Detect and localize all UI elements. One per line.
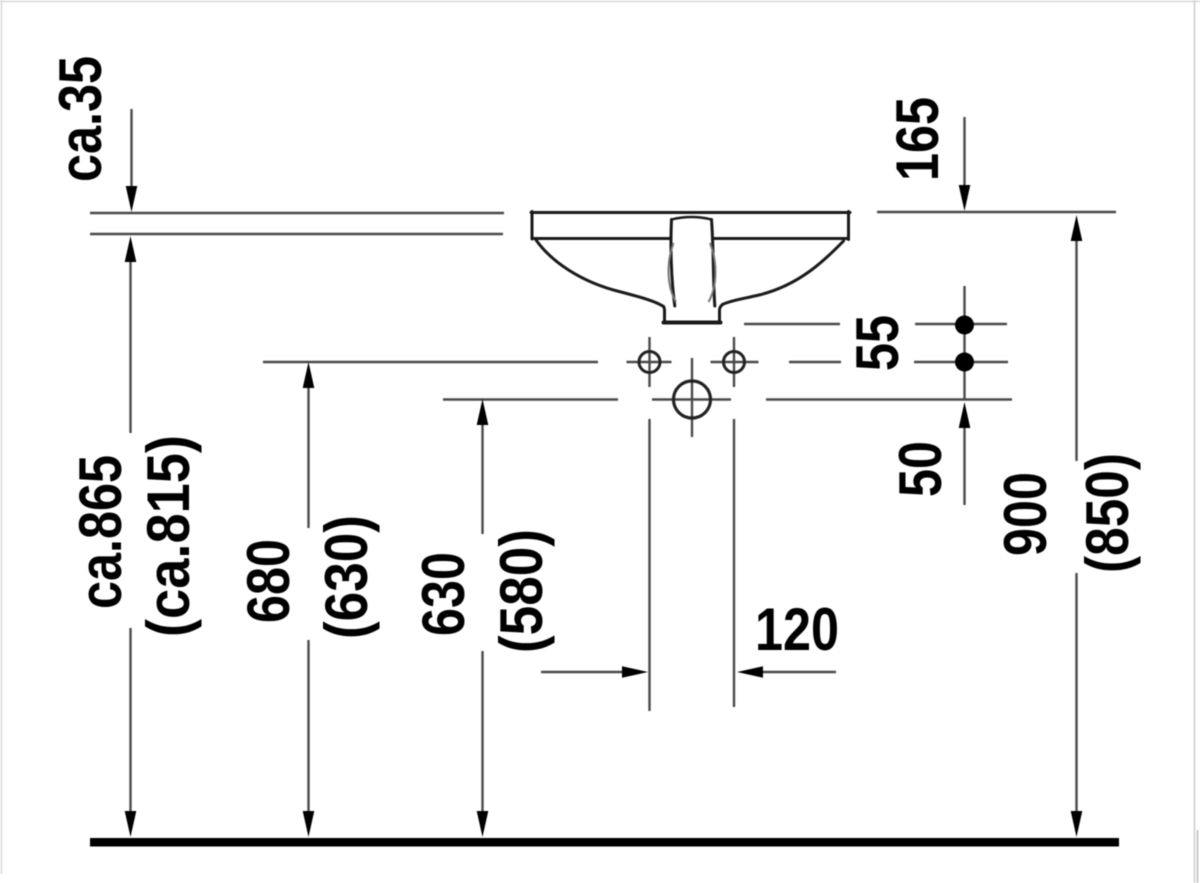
svg-text:(850): (850) xyxy=(1074,453,1141,573)
overflow column top arc xyxy=(672,217,712,220)
arrow 165 down xyxy=(959,185,971,211)
svg-text:ca.865: ca.865 xyxy=(67,455,134,609)
arrow ca.865 up xyxy=(125,236,137,262)
svg-text:50: 50 xyxy=(887,441,954,497)
basin rim left edge xyxy=(531,212,534,240)
faint page border top xyxy=(0,1,1200,3)
wire left faucet hole centerline vertical xyxy=(648,337,650,711)
svg-text:(580): (580) xyxy=(488,529,555,653)
faucet hole circle right xyxy=(724,352,745,373)
wire right faucet hole centerline vertical xyxy=(733,337,735,707)
wire dim line 630 xyxy=(481,421,483,815)
arrow 120 right xyxy=(622,666,648,678)
svg-text:900: 900 xyxy=(992,472,1059,556)
wire dim line ca.865 xyxy=(129,258,131,815)
wire drain-center level extension lines xyxy=(443,398,1012,400)
hidden inner wall arc right in column xyxy=(709,243,716,302)
wire dim line 900 xyxy=(1075,237,1077,815)
hidden inner wall arc left in column xyxy=(669,243,676,302)
arrow ca.35 down xyxy=(126,186,138,212)
arrow 900 up xyxy=(1071,215,1083,241)
drain hole circle xyxy=(674,381,711,418)
arrow 680 up xyxy=(303,362,315,388)
arrow 630 up xyxy=(477,399,489,425)
wire dim line 120 right xyxy=(759,671,836,673)
wire dim line 120 left xyxy=(541,671,626,673)
basin bowl left curve xyxy=(536,240,664,307)
wire countertop top line xyxy=(90,212,504,214)
arrow 120 left xyxy=(737,666,763,678)
wire dim line ca.35 xyxy=(130,109,132,190)
wire drain-bottom level extension lines xyxy=(744,323,1007,325)
arrow ca.865 down xyxy=(125,811,137,837)
faint page border left xyxy=(1,0,3,874)
floor line xyxy=(90,838,1119,847)
wire dim line 165 xyxy=(963,117,965,188)
dot chain point 1 xyxy=(955,316,974,335)
dot chain point 2 xyxy=(955,353,974,372)
wire countertop bottom line xyxy=(90,233,503,235)
wire dim line 50 xyxy=(963,424,965,505)
arrow 630 down xyxy=(477,811,489,837)
svg-text:ca.35: ca.35 xyxy=(47,56,114,182)
drain flange left edge xyxy=(664,307,665,322)
arrow 50 up xyxy=(959,402,971,428)
basin cross-section outline xyxy=(531,212,850,323)
wire dim line 680 xyxy=(307,384,309,815)
svg-text:630: 630 xyxy=(410,552,477,636)
drain flange bottom xyxy=(664,321,721,325)
drain flange right edge xyxy=(720,305,723,322)
wire drain circle centerline vertical xyxy=(691,358,693,437)
wire rim-top extension line right xyxy=(877,211,1116,213)
svg-text:120: 120 xyxy=(755,596,839,663)
overflow column right side xyxy=(712,220,715,307)
basin rim top xyxy=(531,211,850,214)
basin rim bottom xyxy=(533,237,847,240)
arrow 680 down xyxy=(303,811,315,837)
wire dim chain line 55 xyxy=(963,286,965,399)
overflow column left side xyxy=(671,220,675,307)
svg-text:165: 165 xyxy=(884,97,951,181)
svg-text:(630): (630) xyxy=(313,515,380,639)
faint page border right xyxy=(1194,0,1196,883)
basin rim right edge xyxy=(847,212,850,240)
svg-text:680: 680 xyxy=(235,539,302,623)
wire faucet-hole level extension lines xyxy=(263,361,1008,363)
basin bowl right curve xyxy=(723,241,844,305)
svg-text:(ca.815): (ca.815) xyxy=(135,435,202,637)
faucet hole circle left xyxy=(639,352,660,373)
arrow 900 down xyxy=(1071,811,1083,837)
svg-text:55: 55 xyxy=(844,315,911,371)
